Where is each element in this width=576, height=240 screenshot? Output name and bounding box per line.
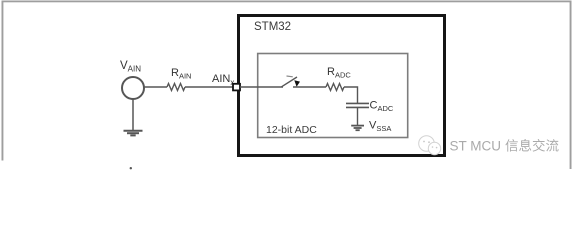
watermark text (450, 139, 559, 154)
wire source to ground (132, 99, 134, 130)
voltage source V1 (VAIN) (122, 77, 144, 99)
pin pad AINx (233, 84, 240, 91)
resistor RADC (326, 84, 344, 91)
wire switch to RADC (293, 86, 326, 88)
svg-text:12-bit ADC: 12-bit ADC (266, 124, 317, 136)
capacitor CADC (346, 103, 369, 107)
label RAIN (171, 67, 191, 81)
label VAIN (120, 60, 141, 74)
label CADC (370, 100, 394, 114)
label VSSA (369, 120, 391, 134)
sampling switch (282, 76, 301, 87)
label node AINx (212, 73, 234, 87)
label RADC (327, 66, 351, 80)
label STM32 (254, 21, 291, 33)
STM32 enclosure box (239, 16, 445, 156)
svg-text:STM32: STM32 (254, 21, 291, 33)
label 12-bit ADC (266, 124, 317, 136)
ground (source earth) (124, 131, 143, 136)
ground VSSA (351, 126, 364, 131)
svg-text:ST MCU: ST MCU (450, 139, 502, 154)
wire pad to switch (240, 86, 283, 88)
wire RADC to CADC (344, 87, 358, 103)
watermark logo (419, 136, 441, 155)
wire RAIN to pad AINx (185, 86, 233, 88)
ADC block box (258, 54, 408, 138)
wire source to RAIN (144, 86, 167, 88)
resistor RAIN (167, 84, 185, 91)
wire CADC to VSSA ground (357, 107, 359, 125)
